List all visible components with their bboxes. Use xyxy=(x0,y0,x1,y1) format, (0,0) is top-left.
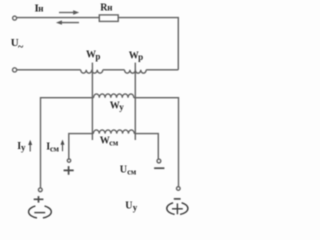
Iсм current arrow xyxy=(62,144,64,152)
terminal Uу - (bottom left) xyxy=(38,188,42,192)
svg-text:у: у xyxy=(119,102,124,112)
core line right xyxy=(134,63,136,140)
arrow left head xyxy=(56,20,62,24)
wire coil2 to right corner xyxy=(146,69,178,71)
core line left xyxy=(91,63,93,140)
svg-text:н: н xyxy=(107,3,112,13)
svg-text:у: у xyxy=(21,143,26,153)
winding Wсм xyxy=(93,130,134,134)
plus sign under Uсм + terminal xyxy=(64,166,74,175)
wire row4 right, down to Uсм - terminal xyxy=(134,134,158,159)
source symbol (−) bottom left xyxy=(29,206,52,218)
minus sign under Uсм - terminal xyxy=(154,167,164,169)
arrow right head xyxy=(73,10,79,14)
plus sign under bottom-left terminal xyxy=(34,196,44,203)
svg-text:р: р xyxy=(138,52,143,62)
resistor Rн xyxy=(99,15,118,22)
winding Wр (right) xyxy=(125,70,147,73)
Iу current arrow xyxy=(29,144,31,152)
svg-text:U: U xyxy=(125,200,132,211)
wire top from terminal to resistor xyxy=(17,17,100,19)
wire between Wр coils xyxy=(103,69,125,71)
terminal mid-left xyxy=(13,68,17,72)
wire resistor to top-right corner, down to row2 xyxy=(118,18,178,70)
arrow right (above wire) xyxy=(59,12,74,14)
wire row3: left corner, down to (-) terminal xyxy=(41,98,94,188)
terminal top-left xyxy=(13,16,17,20)
terminal Uу + (bottom right) xyxy=(177,187,181,191)
arrow left (below wire) xyxy=(61,22,79,24)
svg-text:см: см xyxy=(50,144,60,153)
svg-text:см: см xyxy=(127,167,137,176)
terminal Uсм - xyxy=(157,159,161,163)
terminal Uсм + xyxy=(67,159,70,162)
wire row4 left corner down to Uсм + terminal xyxy=(69,134,94,159)
svg-text:у: у xyxy=(133,202,138,212)
svg-text:р: р xyxy=(95,51,100,61)
source symbol (+) bottom right xyxy=(167,203,188,215)
svg-text:н: н xyxy=(38,4,43,14)
winding Wр (left) xyxy=(81,70,103,73)
svg-text:U: U xyxy=(120,164,127,175)
svg-text:~: ~ xyxy=(18,42,24,53)
svg-text:см: см xyxy=(109,139,119,148)
winding Wу xyxy=(94,94,134,98)
wire row3 right, down to (+) terminal xyxy=(134,98,179,187)
label Iн xyxy=(11,3,143,213)
wire row2 terminal to coil1 xyxy=(17,69,81,71)
minus sign above (+) source xyxy=(174,198,181,200)
